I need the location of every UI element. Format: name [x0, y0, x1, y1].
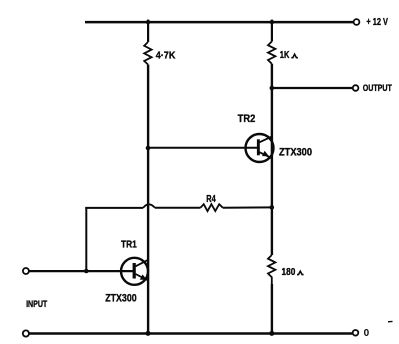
terminal OUTPUT	[353, 85, 359, 91]
svg-text:180: 180	[282, 267, 296, 278]
svg-text:ZTX300: ZTX300	[105, 293, 137, 305]
resistor R 180 ohm	[268, 255, 275, 284]
wire: left rail from top rail to R 4.7K	[147, 20, 149, 42]
ohm mark for 1K	[291, 54, 298, 58]
svg-text:4·7K: 4·7K	[156, 50, 176, 61]
svg-text:TR2: TR2	[238, 113, 256, 125]
wire: output lead	[272, 87, 353, 89]
wire: right rail from 1K down to 180 ohm	[271, 64, 273, 255]
wire hop over left rail	[143, 204, 155, 208]
wire: +12V top supply rail	[85, 21, 353, 24]
scan artifact dash	[388, 320, 393, 322]
transistor TR1 ZTX300	[121, 258, 148, 285]
wire: left rail from 4.7K down to bottom rail	[147, 65, 149, 335]
node: TR2 base junction on left rail	[146, 146, 151, 151]
ohm mark for 180	[297, 271, 304, 274]
wire: right rail from 180 ohm to bottom rail	[271, 284, 273, 334]
svg-text:OUTPUT: OUTPUT	[363, 83, 392, 93]
svg-text:INPUT: INPUT	[26, 298, 47, 309]
svg-text:ZTX300: ZTX300	[279, 146, 312, 158]
wire: right rail from top rail to R 1K	[271, 20, 273, 42]
svg-text:+ 12 V: + 12 V	[366, 17, 388, 28]
node: output junction	[270, 86, 275, 91]
wire: feedback riser from input node	[85, 207, 87, 271]
svg-text:R4: R4	[206, 194, 216, 205]
wire: input lead to TR1 base	[29, 270, 134, 272]
wire: 0V bottom rail	[29, 332, 353, 335]
node: left rail to bottom rail	[146, 331, 151, 336]
svg-text:1K: 1K	[280, 50, 290, 61]
resistor R 1K	[268, 42, 275, 64]
terminal +12V	[354, 19, 360, 25]
wire: R4 to right rail	[223, 206, 272, 208]
resistor R 4.7K	[144, 42, 151, 65]
wire: TR2 base lead	[148, 147, 258, 149]
node: R4 / emitter junction	[270, 205, 275, 210]
terminal INPUT	[23, 268, 29, 274]
transistor TR2 ZTX300	[246, 134, 274, 162]
wire: R4 horizontal run	[85, 207, 143, 209]
svg-text:0: 0	[364, 328, 370, 339]
terminal 0V	[353, 330, 359, 336]
terminal bottom-left	[23, 330, 29, 336]
svg-text:TR1: TR1	[121, 239, 137, 250]
node: input / feedback junction	[84, 269, 89, 274]
node: right rail to bottom rail	[269, 331, 274, 336]
resistor R4	[201, 204, 223, 211]
